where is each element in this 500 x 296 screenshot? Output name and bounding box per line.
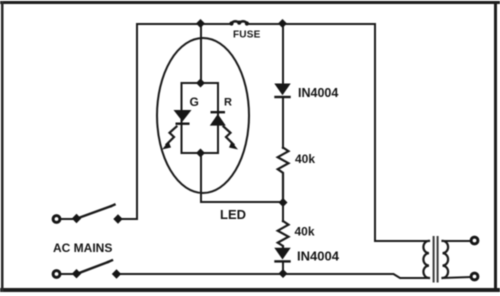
svg-text:R: R	[224, 97, 232, 109]
svg-text:LED: LED	[220, 207, 246, 222]
svg-text:G: G	[190, 95, 199, 109]
svg-text:40k: 40k	[295, 225, 315, 239]
svg-text:FUSE: FUSE	[233, 30, 261, 41]
svg-text:40k: 40k	[295, 152, 315, 166]
svg-text:AC MAINS: AC MAINS	[53, 241, 112, 255]
svg-text:IN4004: IN4004	[298, 86, 338, 100]
svg-text:IN4004: IN4004	[297, 249, 340, 264]
